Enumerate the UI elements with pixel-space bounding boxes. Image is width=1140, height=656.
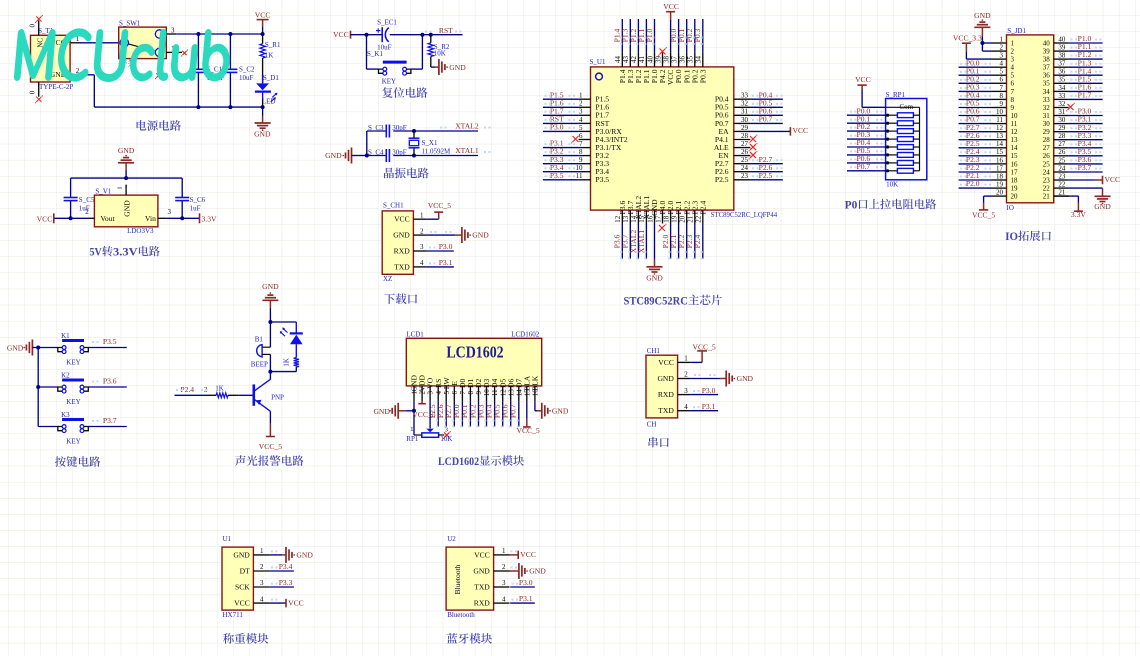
svg-text:24: 24 <box>1043 168 1051 176</box>
wire net P2.1 <box>678 224 680 259</box>
svg-text:1: 1 <box>260 547 264 555</box>
svg-text:28: 28 <box>1043 136 1051 144</box>
svg-text:3: 3 <box>579 108 583 116</box>
pin 24 JD1 right <box>1054 171 1069 173</box>
capacitor S_C2 bottom lead <box>229 72 231 107</box>
svg-text:Bluetooth: Bluetooth <box>447 611 475 619</box>
module U1 HX711 <box>222 547 253 610</box>
svg-text:30: 30 <box>1058 116 1066 124</box>
wire net P1.6 <box>543 106 579 108</box>
svg-text:12: 12 <box>614 215 622 223</box>
RP1 resistor row P0.3 <box>886 138 889 141</box>
svg-text:P0.3: P0.3 <box>698 69 707 83</box>
svg-text:VCC: VCC <box>474 550 490 559</box>
wire net P3.2 JD1 <box>1069 131 1103 133</box>
wire emitter to VCC_5 <box>269 411 271 423</box>
wire net P3.7 <box>629 224 631 259</box>
pin 17 JD1 left <box>992 171 1007 173</box>
pin 10 P3.4 left <box>579 171 591 173</box>
svg-text:VCC: VCC <box>288 598 304 607</box>
wire net P0.0 LCD <box>461 402 463 427</box>
svg-text:S_SW1: S_SW1 <box>119 20 141 28</box>
svg-text:17: 17 <box>996 164 1004 172</box>
wire net P0.1 LCD <box>469 402 471 427</box>
LCD module LCD1 <box>406 338 541 386</box>
wire net P2.4 JD1 <box>959 155 992 157</box>
connector S_CH1 <box>382 211 413 274</box>
svg-text:CH: CH <box>647 421 657 429</box>
svg-text:4: 4 <box>1000 60 1004 68</box>
svg-text:38: 38 <box>1043 56 1051 64</box>
svg-text:30: 30 <box>741 116 749 124</box>
pin 1 S_CH1 VCC <box>413 218 426 220</box>
svg-text:27: 27 <box>741 140 749 148</box>
svg-text:GND: GND <box>529 566 546 575</box>
pin 16 LCD BLK <box>534 386 536 402</box>
button K1 <box>38 347 58 349</box>
wire net P3.6 <box>621 224 623 259</box>
svg-text:GND: GND <box>737 374 754 383</box>
wire: LED to GND <box>262 99 264 107</box>
wire net P0.7 LCD <box>518 402 520 427</box>
svg-text:S_EC1: S_EC1 <box>377 18 397 26</box>
wire LCD pin1 GND <box>413 402 415 435</box>
svg-text:44: 44 <box>614 56 622 64</box>
pin 4 U2 RXD <box>494 602 510 604</box>
wire S_CH1 GND <box>426 234 455 236</box>
svg-text:LCD1602: LCD1602 <box>438 456 479 468</box>
pin 34 JD1 right <box>1054 90 1069 92</box>
svg-text:41: 41 <box>638 56 646 64</box>
svg-text:39: 39 <box>654 56 662 64</box>
capacitor S_C5 leads <box>70 178 72 197</box>
pin 11 LCD D4 <box>494 386 496 402</box>
wire S_CH1 VCC_5 <box>426 218 438 220</box>
svg-text:2: 2 <box>1000 44 1004 52</box>
wire net P0.0 RP1 <box>847 114 886 116</box>
RP1 resistor row P0.1 <box>886 122 889 125</box>
wire net P0.5 LCD <box>502 402 504 427</box>
pin 10 LCD D3 <box>486 386 488 402</box>
pin 23 JD1 right <box>1054 179 1069 181</box>
RP1 resistor row P0.0 <box>886 114 889 117</box>
svg-text:5V: 5V <box>90 246 102 258</box>
svg-text:34: 34 <box>1043 88 1051 96</box>
pin 37 P0.0 top <box>678 52 680 67</box>
wire: crystal bottom branch <box>367 155 387 157</box>
svg-text:2: 2 <box>85 208 89 216</box>
svg-text:VCC: VCC <box>658 358 674 367</box>
svg-text:GND: GND <box>552 406 569 415</box>
svg-text:39: 39 <box>1043 48 1051 56</box>
wire net P2.7 JD1 <box>959 131 992 133</box>
svg-text:10K: 10K <box>886 181 898 189</box>
RP1 com lead <box>886 106 920 108</box>
wire net P3.0 JD1 <box>1069 115 1103 117</box>
svg-text:P3.0: P3.0 <box>550 123 564 132</box>
wire net P0.2 RP1 <box>847 130 886 132</box>
svg-text:5: 5 <box>443 391 451 395</box>
wire net P1.4 JD1 <box>1069 74 1103 76</box>
pin 37 JD1 right <box>1054 66 1069 68</box>
wire: R2 to GND <box>431 66 435 68</box>
wire: reset left drop <box>366 35 368 69</box>
svg-text:16: 16 <box>1011 160 1019 168</box>
svg-text:7: 7 <box>1000 84 1004 92</box>
svg-text:32: 32 <box>1043 104 1051 112</box>
wire net P0.2 LCD <box>478 402 480 427</box>
wire: switch pin3 to VCC rail <box>176 33 262 35</box>
title: serial port <box>649 437 658 447</box>
svg-text:1: 1 <box>410 426 413 433</box>
button S_K1 <box>367 68 379 70</box>
svg-text:LCD1: LCD1 <box>406 330 424 338</box>
svg-text:P2.4: P2.4 <box>693 234 702 248</box>
svg-text:35: 35 <box>1043 80 1051 88</box>
svg-text:36: 36 <box>1043 72 1051 80</box>
svg-text:P2.5: P2.5 <box>715 175 729 184</box>
wire LED to resistor <box>295 344 297 357</box>
pin 34 P0.3 top <box>702 52 704 67</box>
pin 25 JD1 right <box>1054 163 1069 165</box>
svg-text:20: 20 <box>679 215 687 223</box>
svg-text:37: 37 <box>1058 60 1066 68</box>
resistor S_R2 <box>430 35 432 43</box>
svg-text:4: 4 <box>435 391 443 395</box>
wire net P0.4 JD1 <box>959 98 992 100</box>
pin 15 XTAL1 bottom <box>645 210 647 223</box>
wire net P3.4 <box>270 570 294 572</box>
svg-text:31: 31 <box>1058 108 1066 116</box>
svg-text:29: 29 <box>741 124 749 132</box>
pin 30 P0.7 right <box>734 122 751 124</box>
svg-text:GND: GND <box>123 200 132 217</box>
wire: reset right drop <box>421 35 423 69</box>
svg-text:3: 3 <box>168 208 172 216</box>
svg-text:4: 4 <box>684 403 688 411</box>
wire CH1 GND <box>691 378 720 380</box>
svg-text:TYPE-C-2P: TYPE-C-2P <box>39 83 73 91</box>
pin 35 JD1 right <box>1054 82 1069 84</box>
wire net P1.1 <box>645 19 647 52</box>
pin 24 P2.6 right <box>734 171 751 173</box>
wire net P0.3 JD1 <box>959 90 992 92</box>
pin 26 EN right <box>734 155 751 157</box>
svg-text:34: 34 <box>1058 84 1066 92</box>
svg-text:33: 33 <box>1058 92 1066 100</box>
svg-text:19: 19 <box>1011 185 1019 193</box>
pin: LDO Vout <box>87 217 95 219</box>
svg-text:P2.5: P2.5 <box>759 171 773 180</box>
svg-text:9: 9 <box>579 156 583 164</box>
pin 2 U2 GND <box>494 570 510 572</box>
resistor S_R1 <box>262 34 264 44</box>
LED alarm <box>290 332 303 334</box>
wire net P2.7 LCD <box>453 402 455 427</box>
wire net P1.4 <box>621 19 623 52</box>
svg-text:GND: GND <box>974 11 991 20</box>
svg-text:GND: GND <box>118 146 135 155</box>
svg-text:7: 7 <box>579 140 583 148</box>
pin 26 JD1 right <box>1054 155 1069 157</box>
pin 20 JD1 left <box>992 195 1007 197</box>
svg-text:24: 24 <box>741 164 749 172</box>
LED arrows <box>271 94 277 102</box>
svg-text:3: 3 <box>684 387 688 395</box>
svg-text:Vout: Vout <box>100 214 115 223</box>
logo MCUclub <box>15 29 232 81</box>
svg-text:S_X1: S_X1 <box>422 139 438 147</box>
pin 29 JD1 right <box>1054 131 1069 133</box>
svg-text:GND: GND <box>1094 202 1111 211</box>
pin 19 P2.1 bottom <box>678 210 680 223</box>
svg-text:14: 14 <box>1011 144 1019 152</box>
svg-text:P3.0: P3.0 <box>439 242 453 251</box>
wire net P3.3 JD1 <box>1069 139 1103 141</box>
svg-text:4: 4 <box>260 595 264 603</box>
svg-text:12: 12 <box>499 389 507 397</box>
pin 27 JD1 right <box>1054 147 1069 149</box>
title: bluetooth module <box>447 633 458 643</box>
wire U1 GND <box>270 554 283 556</box>
wire net P0.0 <box>678 19 680 52</box>
svg-text:K1: K1 <box>61 332 70 340</box>
pin 2 U1 DT <box>253 570 269 572</box>
svg-text:STC89C52RC: STC89C52RC <box>624 295 688 307</box>
pin 27 ALE right <box>734 147 751 149</box>
pin 16 GND bottom <box>654 210 656 223</box>
svg-text:13: 13 <box>1011 136 1019 144</box>
svg-text:26: 26 <box>741 148 749 156</box>
pin 5 P3.0/RX left <box>579 130 591 132</box>
svg-text:S_U1: S_U1 <box>590 58 606 66</box>
svg-text:XTAL2: XTAL2 <box>455 122 479 131</box>
svg-text:23: 23 <box>741 172 749 180</box>
pin 1 JD1 left <box>992 42 1007 44</box>
svg-text:P0.3: P0.3 <box>693 28 702 42</box>
title: reset circuit <box>382 87 392 98</box>
svg-text:3.3V: 3.3V <box>202 214 217 223</box>
wire net P2.5 LCD <box>437 402 439 427</box>
svg-text:13: 13 <box>507 389 515 397</box>
svg-text:P1.0: P1.0 <box>645 28 654 42</box>
svg-text:P2.0: P2.0 <box>966 179 980 188</box>
pin 21 JD1 right <box>1054 195 1069 197</box>
wire net P3.5 JD1 <box>1069 155 1103 157</box>
svg-text:S_C2: S_C2 <box>239 66 255 74</box>
capacitor S_C6 <box>175 198 189 201</box>
svg-text:36: 36 <box>1058 68 1066 76</box>
wire net P1.7 <box>543 114 579 116</box>
wire U2 VCC <box>510 554 519 556</box>
svg-text:RXD: RXD <box>474 599 491 608</box>
svg-text:23: 23 <box>1058 172 1066 180</box>
svg-text:TXD: TXD <box>658 406 674 415</box>
svg-text:18: 18 <box>1011 176 1019 184</box>
pin 3 LCD VO <box>429 386 431 402</box>
capacitor S_C1 top lead <box>197 34 199 69</box>
pin: switch pin1 <box>166 51 182 53</box>
pin 3 P1.7 left <box>579 114 591 116</box>
wire: bottom rail <box>94 106 262 108</box>
wire net RST <box>543 122 579 124</box>
svg-text:P3.5: P3.5 <box>550 171 564 180</box>
capacitor S_C3 <box>386 125 389 138</box>
svg-text:13: 13 <box>622 215 630 223</box>
wire base <box>175 394 208 396</box>
svg-text:9: 9 <box>475 391 483 395</box>
svg-text:1: 1 <box>420 211 424 219</box>
no-ERC mark T1 top <box>36 16 41 21</box>
svg-text:VCC: VCC <box>520 550 536 559</box>
svg-text:5: 5 <box>1000 68 1004 76</box>
svg-text:KEY: KEY <box>66 437 80 445</box>
wire resistor bottom <box>295 367 297 372</box>
wire: reset rail <box>351 34 383 36</box>
title: download port <box>384 293 395 303</box>
wire net P3.6 <box>88 386 126 388</box>
pin 29 EA right <box>734 130 751 132</box>
capacitor S_C4 <box>386 149 389 162</box>
svg-text:RXD: RXD <box>394 246 411 255</box>
pin 3 CH1 RXD <box>678 394 691 396</box>
wire: GND down to bottom rail <box>93 75 95 107</box>
svg-text:28: 28 <box>741 132 749 140</box>
pin 38 JD1 right <box>1054 58 1069 60</box>
wire net P3.1 JD1 <box>1069 123 1103 125</box>
svg-text:GND: GND <box>254 130 271 139</box>
pin 6 JD1 left <box>992 82 1007 84</box>
svg-text:3.3V: 3.3V <box>1071 210 1086 219</box>
svg-text:29: 29 <box>1058 124 1066 132</box>
svg-text:32: 32 <box>741 100 749 108</box>
svg-text:31: 31 <box>741 108 749 116</box>
svg-text:10K: 10K <box>434 50 446 58</box>
svg-text:25: 25 <box>741 156 749 164</box>
wire U2 GND <box>510 570 519 572</box>
wire U1 VCC <box>270 602 286 604</box>
wire net P0.4 RP1 <box>847 146 886 148</box>
svg-text:2: 2 <box>260 563 264 571</box>
pin 18 JD1 left <box>992 179 1007 181</box>
svg-text:P1.7: P1.7 <box>1078 91 1092 100</box>
pin 14 XTAL2 bottom <box>637 210 639 223</box>
svg-text:S_C4: S_C4 <box>368 148 384 156</box>
pin 6 P4.3/INT2 left <box>579 139 591 141</box>
pin 28 JD1 right <box>1054 139 1069 141</box>
no-ERC mark pin 17 <box>659 225 665 231</box>
svg-text:42: 42 <box>630 56 638 64</box>
svg-text:S_RP1: S_RP1 <box>886 91 906 99</box>
svg-text:17: 17 <box>1011 168 1019 176</box>
svg-text:20: 20 <box>1011 193 1019 201</box>
svg-text:4: 4 <box>420 259 424 267</box>
wire net P0.7 JD1 <box>959 123 992 125</box>
pin 7 JD1 left <box>992 90 1007 92</box>
ground GND chip <box>647 267 663 272</box>
pin 42 P1.2 top <box>637 52 639 67</box>
pin 2 P1.6 left <box>579 106 591 108</box>
wire net P3.0 <box>543 130 579 132</box>
svg-text:29: 29 <box>1043 128 1051 136</box>
svg-text:GND: GND <box>296 550 313 559</box>
wire net P0.1 <box>686 19 688 52</box>
svg-text:GND: GND <box>472 230 489 239</box>
svg-text:IO: IO <box>1005 231 1018 243</box>
pin 36 JD1 right <box>1054 74 1069 76</box>
svg-text:S_C5: S_C5 <box>79 196 95 204</box>
capacitor S_C6 leads <box>181 178 183 197</box>
svg-text:30: 30 <box>1043 120 1051 128</box>
pin 4 U1 VCC <box>253 602 269 604</box>
svg-text:VCC: VCC <box>37 214 53 223</box>
svg-text:LDO3V3: LDO3V3 <box>127 227 154 235</box>
svg-text:P3.5: P3.5 <box>103 337 117 346</box>
wire LCD pin16 GND <box>534 402 536 411</box>
title: button circuit <box>55 456 66 467</box>
pin: switch bottom <box>158 57 160 73</box>
svg-text:P3.5: P3.5 <box>595 175 609 184</box>
svg-text:35: 35 <box>687 56 695 64</box>
pin 11 JD1 left <box>992 123 1007 125</box>
wire net P3.7 <box>88 426 126 428</box>
wire net P2.6 LCD <box>445 402 447 427</box>
button K2 <box>38 386 58 388</box>
pin 14 LCD D7 <box>518 386 520 402</box>
svg-text:38: 38 <box>662 56 670 64</box>
svg-text:11: 11 <box>491 389 499 396</box>
pin 36 P0.1 top <box>686 52 688 67</box>
svg-text:1: 1 <box>1000 35 1004 43</box>
no-ERC mark pin 27 <box>750 144 756 150</box>
pin 21 P2.3 bottom <box>694 210 696 223</box>
svg-text:5: 5 <box>1011 72 1015 80</box>
wire net P0.5 <box>750 106 782 108</box>
wire net P0.5 RP1 <box>847 154 886 156</box>
svg-text:8: 8 <box>1011 96 1015 104</box>
svg-text:RST: RST <box>439 26 453 35</box>
wire net P3.1 serial <box>691 410 719 412</box>
wire JD1 pin21 3.3V <box>1054 195 1071 197</box>
LED alarm lead top <box>295 322 297 333</box>
wire buzzer bottom <box>269 354 271 371</box>
svg-text:43: 43 <box>622 56 630 64</box>
resistor 1K alarm <box>294 358 299 368</box>
svg-text:10: 10 <box>483 389 491 397</box>
RP1 resistor row P0.5 <box>886 153 889 156</box>
svg-text:IO: IO <box>1007 204 1014 212</box>
wire net P2.0 JD1 <box>959 187 992 189</box>
svg-text:21: 21 <box>687 215 695 223</box>
wire net P1.0 <box>654 19 656 52</box>
wire net P1.6 JD1 <box>1069 90 1103 92</box>
svg-text:P3.7: P3.7 <box>103 416 117 425</box>
pin 32 JD1 right <box>1054 107 1069 109</box>
wire chip GND <box>654 224 656 260</box>
wire net P1.5 JD1 <box>1069 82 1103 84</box>
svg-text:32: 32 <box>1058 100 1066 108</box>
svg-text:18: 18 <box>996 172 1004 180</box>
svg-text:1: 1 <box>502 547 506 555</box>
svg-text:31: 31 <box>1043 112 1051 120</box>
pin 15 LCD BLA <box>526 386 528 402</box>
LED alarm arrows <box>281 329 288 336</box>
svg-text:P3.0: P3.0 <box>702 386 716 395</box>
svg-text:P3.1: P3.1 <box>519 594 533 603</box>
svg-text:2: 2 <box>579 100 583 108</box>
svg-text:14: 14 <box>996 140 1004 148</box>
svg-text:0: 0 <box>29 23 37 27</box>
